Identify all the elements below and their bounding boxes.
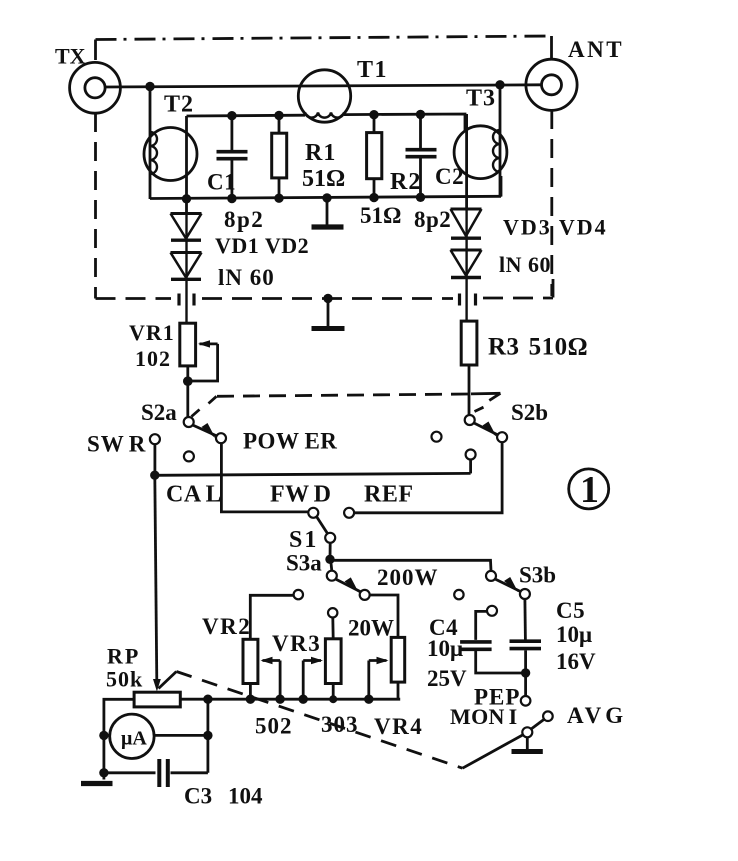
shield box bottom dashed edge right part: [483, 297, 553, 300]
contact above CAL bus right end: [466, 450, 476, 474]
wire: T2 secondary drop to diodes: [185, 116, 188, 214]
svg-text:μA: μA: [121, 728, 147, 750]
svg-text:VR1: VR1: [129, 320, 175, 345]
switch S1: [308, 508, 354, 543]
svg-text:10μ: 10μ: [556, 622, 592, 647]
svg-text:303: 303: [321, 712, 359, 737]
svg-text:16V: 16V: [556, 649, 596, 674]
svg-text:SWR: SWR: [87, 432, 146, 457]
switch S2b: [432, 415, 508, 442]
svg-text:AVG: AVG: [567, 703, 627, 728]
feedthrough capacitor left: [179, 294, 194, 306]
wire: bottom rail (ground rail): [150, 196, 501, 198]
svg-text:S1: S1: [289, 527, 318, 553]
svg-text:102: 102: [135, 346, 171, 371]
diode VD1: [171, 214, 202, 241]
capacitor C3: [104, 759, 208, 787]
svg-text:502: 502: [255, 714, 293, 739]
SHIELD-BOX: [96, 36, 554, 299]
feedthrough capacitor right: [460, 294, 476, 306]
potentiometer VR2: [243, 639, 280, 699]
wire: T3 secondary drop to diodes: [465, 114, 468, 209]
diode VD4: [451, 250, 482, 278]
SWR input contact: [150, 434, 160, 475]
svg-text:S3b: S3b: [519, 563, 556, 588]
capacitor C1: [217, 116, 248, 199]
shield box top-left corner stub: [94, 40, 97, 61]
shield box top dashed edge: [96, 36, 552, 40]
capacitor C5: [510, 641, 542, 696]
svg-text:R1: R1: [305, 140, 336, 166]
svg-text:8p2: 8p2: [224, 207, 264, 232]
svg-text:lN 60: lN 60: [218, 265, 275, 290]
svg-text:10μ: 10μ: [427, 636, 463, 661]
resistor R1: [272, 116, 287, 198]
svg-text:VR2: VR2: [202, 614, 251, 639]
shield box left dashed edge: [94, 113, 97, 299]
wire: VD1-VD2 link and down to feedthrough: [185, 214, 187, 324]
resistor R2: [367, 115, 382, 198]
switch S3b: [454, 571, 530, 599]
wire: main bus TX to ANT: [105, 85, 542, 87]
wire: junction to S3a pole: [331, 559, 332, 571]
svg-text:R3510Ω: R3510Ω: [488, 334, 588, 361]
diode VD2: [171, 253, 202, 280]
switch S2a: [184, 417, 226, 461]
wire: S3b throw down to C5: [524, 599, 527, 640]
svg-text:ANT: ANT: [568, 37, 624, 62]
svg-text:S2a: S2a: [141, 400, 177, 425]
svg-text:VR4: VR4: [374, 714, 423, 739]
wire: middle contact to VR3 top: [331, 618, 334, 639]
potentiometer VR3: [303, 639, 341, 699]
transformer T3: [454, 126, 507, 179]
switch S3a: [294, 571, 370, 618]
transformer T2: [144, 128, 197, 181]
wire: bottom rail right end up to T3: [500, 176, 503, 197]
resistor R3: [461, 321, 477, 415]
svg-text:8p2: 8p2: [414, 207, 451, 232]
AVG contact and MON pole switch: [512, 711, 553, 751]
potentiometer VR4: [369, 637, 405, 699]
svg-text:T2: T2: [164, 92, 194, 118]
shield box bottom dashed edge middle part: [202, 297, 453, 300]
svg-text:1: 1: [580, 469, 599, 511]
svg-text:C5: C5: [556, 598, 585, 623]
ground at meter minus: [81, 773, 113, 784]
wire: bus drop to T3 primary: [499, 85, 502, 197]
ganged coupling RP-to-MON dashed link: [159, 672, 524, 769]
ground at bottom rail: [312, 198, 344, 228]
svg-text:T3: T3: [466, 86, 496, 112]
svg-text:200W: 200W: [377, 565, 439, 590]
ganged coupling S2a-S2b dashed link: [192, 393, 501, 416]
svg-text:TX: TX: [55, 44, 86, 69]
svg-text:POWER: POWER: [243, 429, 337, 454]
svg-text:20W: 20W: [348, 616, 394, 641]
shield box bottom-right corner stub: [552, 279, 555, 298]
transformer T1: [298, 70, 350, 122]
svg-text:51Ω: 51Ω: [302, 166, 345, 192]
shield box bottom dashed edge left part: [96, 297, 172, 300]
wire: bus drop to T2 primary: [149, 86, 152, 199]
circled figure number 1: [569, 469, 609, 509]
svg-text:R2: R2: [390, 169, 421, 195]
svg-text:T1: T1: [357, 57, 388, 83]
shield box right dashed edge: [550, 110, 553, 296]
PEP contact: [521, 696, 531, 706]
wire: S2a throw down to FWD contact: [221, 443, 308, 512]
ANT connector J2: [526, 59, 577, 110]
wire: T2 secondary top rail: [187, 114, 306, 118]
wire: CAL bus: [155, 473, 471, 475]
svg-text:FWD: FWD: [270, 482, 332, 508]
svg-text:25V: 25V: [427, 666, 467, 691]
svg-text:104: 104: [228, 784, 263, 809]
wire: SWR line down to RP wiper: [153, 475, 161, 691]
wire: meter bus: [180, 698, 400, 701]
C4 top contact: [476, 606, 497, 640]
svg-text:50k: 50k: [106, 667, 143, 692]
svg-text:C3: C3: [184, 784, 212, 809]
svg-text:S2b: S2b: [511, 400, 548, 425]
wire: left contact to VR2 top: [250, 595, 293, 639]
capacitor C4: [460, 642, 525, 673]
svg-text:RP: RP: [107, 644, 140, 669]
svg-text:C2: C2: [435, 164, 464, 189]
TX connector J1: [70, 62, 121, 113]
wire: S1 pole down to S3 junction: [329, 543, 332, 559]
svg-text:C1: C1: [207, 170, 236, 195]
ground on shield box bottom: [312, 299, 345, 329]
wire: VD3-VD4 link and down to R3: [465, 209, 467, 322]
svg-text:REF: REF: [364, 482, 414, 508]
svg-text:VD3 VD4: VD3 VD4: [503, 215, 608, 240]
diode VD3: [451, 209, 482, 238]
potentiometer RP: [104, 692, 180, 773]
meter uA: [104, 699, 208, 773]
potentiometer VR1: [180, 323, 218, 417]
capacitor C2: [406, 114, 437, 197]
svg-text:lN 60: lN 60: [499, 252, 551, 277]
svg-text:VR3: VR3: [272, 631, 321, 656]
wire: REF bus to S2b throw: [354, 442, 502, 513]
wire: S3a throw to VR4 top: [370, 595, 398, 637]
svg-text:51Ω: 51Ω: [360, 203, 401, 228]
svg-text:S3a: S3a: [286, 551, 322, 576]
svg-text:VD1 VD2: VD1 VD2: [215, 233, 309, 258]
TEXT-LABELS: [55, 37, 627, 809]
wire: junction to S3b pole: [330, 560, 491, 571]
shield box top-right corner stub: [550, 36, 553, 58]
svg-text:CAL: CAL: [166, 482, 222, 508]
